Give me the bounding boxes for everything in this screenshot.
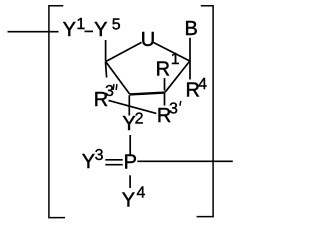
svg-text:1: 1 — [76, 16, 85, 33]
svg-text:3: 3 — [105, 83, 114, 100]
svg-text:Y: Y — [94, 19, 107, 41]
svg-text:5: 5 — [112, 16, 121, 33]
svg-text:P: P — [124, 151, 137, 173]
svg-text:Y: Y — [82, 151, 95, 173]
svg-text:4: 4 — [137, 184, 146, 201]
svg-text:R: R — [156, 58, 170, 80]
svg-text:U: U — [141, 29, 155, 51]
svg-text:B: B — [185, 18, 198, 40]
svg-text:3: 3 — [169, 100, 178, 117]
svg-text:Y: Y — [63, 19, 76, 41]
svg-text:4: 4 — [198, 76, 207, 93]
svg-text:1: 1 — [171, 51, 180, 68]
svg-text:Y: Y — [122, 189, 135, 211]
svg-text:3: 3 — [95, 147, 104, 164]
svg-text:2: 2 — [135, 111, 144, 128]
